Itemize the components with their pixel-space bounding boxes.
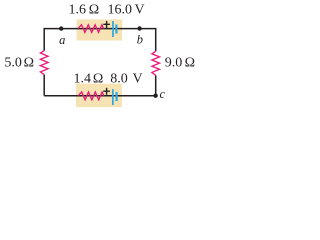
battery 8.0 V: long plate	[112, 89, 114, 105]
node c (junction dot)	[153, 94, 157, 98]
battery 8.0 V: short plate	[116, 92, 118, 101]
wire: right rail lower segment	[155, 75, 157, 96]
svg-text:9.0: 9.0	[165, 56, 183, 71]
svg-text:b: b	[137, 33, 143, 47]
svg-text:Ω: Ω	[89, 3, 99, 18]
wire: bottom rail	[44, 95, 156, 97]
highlight box (top branch: 1.6 ohm + 16.0 V)	[77, 19, 123, 40]
svg-text:c: c	[160, 87, 166, 101]
polarity + mark (bottom battery)	[103, 88, 110, 95]
svg-text:Ω: Ω	[24, 56, 34, 71]
battery 16.0 V: long plate	[112, 21, 114, 37]
svg-text:16.0: 16.0	[108, 3, 133, 18]
highlight box (bottom branch: 1.4 ohm + 8.0 V)	[76, 84, 122, 108]
svg-text:5.0: 5.0	[4, 56, 22, 71]
resistor 5.0 ohm (left rail)	[40, 51, 48, 75]
resistor 1.4 ohm (bottom branch)	[78, 92, 104, 100]
svg-text:1.6: 1.6	[68, 3, 86, 18]
resistor 1.6 ohm (top branch)	[78, 25, 104, 33]
svg-text:Ω: Ω	[185, 56, 195, 71]
svg-text:Ω: Ω	[93, 72, 103, 87]
svg-text:V: V	[133, 72, 143, 87]
wire: right rail upper segment	[155, 28, 157, 51]
svg-text:a: a	[59, 33, 65, 47]
wire: top rail (a-b)	[44, 28, 156, 30]
svg-text:8.0: 8.0	[110, 72, 128, 87]
node b (junction dot)	[137, 26, 141, 30]
polarity + mark (top battery)	[103, 21, 110, 28]
battery 16.0 V: short plate	[115, 25, 117, 34]
wire: left rail lower segment	[43, 75, 45, 96]
resistor 9.0 ohm (right rail)	[152, 51, 160, 75]
svg-text:1.4: 1.4	[73, 72, 91, 87]
svg-text:V: V	[134, 3, 144, 18]
node a (junction dot)	[59, 26, 63, 30]
wire: left rail upper segment	[43, 28, 45, 51]
